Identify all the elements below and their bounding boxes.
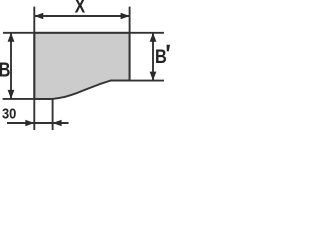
right vertical extension line (X right ext + part right edge) <box>129 7 131 81</box>
label B <box>0 58 10 81</box>
dimension 30 right arrow <box>53 120 62 126</box>
svg-text:30: 30 <box>2 104 17 121</box>
30 right extension line <box>52 99 54 130</box>
part outline (tapered gib-key profile, gray fill) <box>34 33 129 99</box>
dimension B' line with arrows <box>150 33 157 81</box>
dimension 30 line <box>7 122 69 124</box>
label X <box>75 0 86 17</box>
top edge / extension line (B top ext + top edge + B' top ext) <box>3 32 164 34</box>
svg-text:X: X <box>75 0 86 17</box>
label 30 <box>2 104 17 121</box>
svg-text:B: B <box>155 46 167 67</box>
bottom-right extension line (flat bottom + B' bottom ext) <box>110 80 164 82</box>
left vertical extension line (X left ext + part left edge + 30 left ext) <box>33 7 35 130</box>
dimension B line with arrows <box>8 33 15 99</box>
bottom-left extension line (B bottom ext + flat bottom) <box>3 98 53 100</box>
dimension 30 left arrow <box>25 120 34 126</box>
svg-text:B: B <box>0 58 10 81</box>
label B' <box>155 45 170 67</box>
dimension X line with arrows <box>34 13 129 19</box>
